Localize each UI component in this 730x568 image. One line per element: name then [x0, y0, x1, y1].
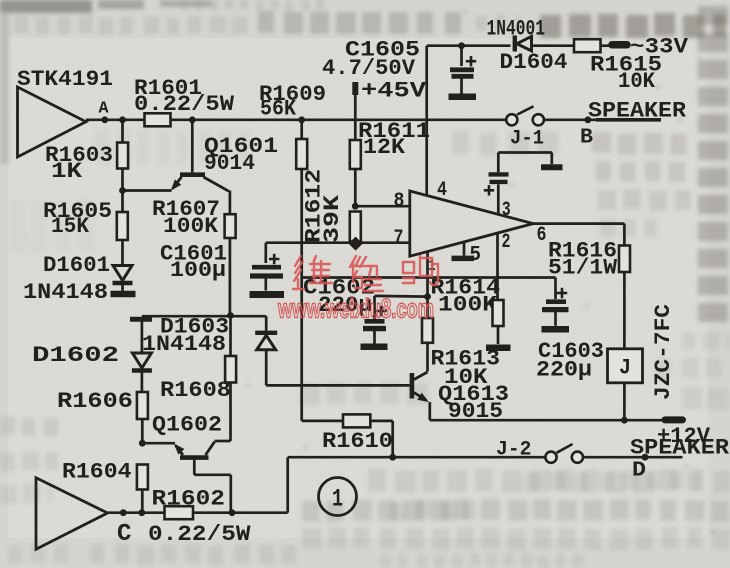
ground pin3 net — [541, 164, 563, 170]
plus sign C1605 — [466, 56, 476, 66]
wire op-amp output pin 6 — [533, 222, 624, 225]
wire junction down to R1608 — [229, 316, 232, 357]
junction pin8 node — [352, 203, 359, 210]
wire STK output to node A — [86, 118, 105, 121]
wire pin 8 — [355, 205, 410, 208]
wire Q1613 emitter down — [428, 402, 431, 420]
plus sign C1602 — [376, 306, 386, 316]
junction bus / Q1601 — [189, 116, 196, 123]
resistor R1608 — [225, 356, 236, 383]
capacitor C1603 bottom plate — [542, 307, 569, 312]
junction node A / R1603 — [119, 116, 126, 123]
junction R1610 / J-2 bus — [389, 454, 396, 461]
wire R1610 row — [302, 420, 393, 423]
relay J JZC-7FC box — [608, 349, 643, 383]
J-1 lever — [517, 106, 534, 114]
junction R1607/R1608/D1602/D1603 — [227, 312, 234, 319]
wire C1602 to pin1 junction — [375, 295, 428, 298]
wire pin 1 down — [426, 252, 429, 297]
op-amp STK4191 lower section triangle — [36, 478, 108, 549]
wire node A down through R1603 — [121, 120, 124, 191]
resistor R1603 1K — [117, 143, 128, 169]
terminal bar +12V — [665, 416, 683, 423]
switch J-2 — [545, 452, 556, 463]
diode D1604 1N4001 — [513, 36, 517, 52]
terminal bar above D1602 — [130, 317, 152, 322]
wire relay to +12V bus — [623, 383, 626, 420]
wire Q1602 base down to node — [229, 475, 232, 513]
junction R1606/R1604/Q1602 emitter — [139, 440, 146, 447]
wire R1614 to ground — [497, 326, 500, 344]
terminal bar ~33V — [612, 41, 627, 49]
resistor R1611 12K — [350, 140, 361, 169]
wire R1610 corner down — [391, 421, 394, 457]
diode D1601 1N4148 — [113, 266, 132, 281]
Q1613 emitter lead — [414, 393, 427, 401]
node C — [120, 509, 127, 516]
resistor R1607 100K — [225, 214, 236, 238]
svg-text:www.weixiu8.com: www.weixiu8.com — [277, 294, 434, 324]
capacitor C1603 top plate — [546, 299, 566, 304]
capacitor C1601 bottom plate — [250, 273, 283, 278]
ground below D1601 — [111, 291, 136, 298]
wire bus underline below SPEAKER — [596, 118, 661, 122]
junction pin1/C1602/R1613 — [424, 293, 431, 300]
wire Q1602 emitter to junction — [142, 442, 175, 445]
wire C1601 to ground — [264, 279, 267, 291]
resistor R1606 — [137, 392, 148, 419]
wire Q1602 base right — [194, 473, 231, 476]
junction R1603/R1605/Q1601 emitter — [119, 187, 126, 194]
junction bus / R1609 — [298, 116, 305, 123]
wire pin3 top right — [498, 151, 552, 154]
resistor R1602 0.22/5W — [165, 506, 194, 519]
wire Q1601 collector down to R1607 — [229, 191, 232, 215]
node D dot — [642, 454, 649, 461]
wire junction down through R1605 — [121, 191, 124, 266]
wire junction to R1613 — [426, 297, 429, 318]
resistor R1609 56K — [296, 139, 307, 169]
wire C1605 lead — [460, 46, 463, 66]
capacitor on pin 3 — [490, 180, 508, 184]
wire bus after J-1 to SPEAKER B — [544, 118, 598, 121]
wire C1601 top lead — [264, 243, 267, 263]
resistor R1615 10K — [574, 39, 601, 52]
Q1601 emitter lead — [173, 177, 182, 189]
wire C1605 to ground — [460, 79, 463, 94]
resistor R1612 39K — [350, 212, 361, 242]
diode D1603 1N4148 — [255, 331, 277, 335]
wire Q1601 emitter to junction — [123, 189, 172, 192]
wire R1606 to junction — [141, 419, 144, 443]
op-amp STK4191 upper section triangle — [18, 87, 87, 157]
ground below C1602 — [361, 344, 388, 351]
ground below C1603 — [542, 326, 570, 333]
wire C1603 to ground — [554, 312, 557, 326]
Q1613 collector lead — [414, 372, 428, 380]
wire R1613 to Q1613 collector — [426, 343, 429, 372]
wire R1609 column down to R1610 — [300, 120, 303, 421]
wire R1615 to terminal — [601, 44, 613, 47]
wire R1607 down to junction — [229, 238, 232, 316]
wire corner down to D1603 — [265, 316, 268, 331]
wire pin 4 up to top rail — [425, 46, 428, 196]
wire pin 7 from C1601 to op-amp — [266, 241, 410, 244]
Q1601 collector lead — [204, 177, 229, 191]
wire D1602 to R1606 — [141, 373, 144, 393]
wire pin 2 down — [496, 233, 499, 300]
wire C1602 lead down — [373, 296, 376, 319]
wire C1602 to ground — [373, 331, 376, 344]
junction diamond pin7 node — [349, 237, 363, 251]
wire R1604 to bottom bus — [141, 490, 144, 513]
wire corner down to R1616 — [623, 224, 626, 246]
Q1613 emitter arrow — [417, 393, 431, 406]
wire D1601 to ground — [121, 284, 124, 291]
capacitor C1602 top plate — [365, 319, 385, 324]
wire +12V bus — [430, 419, 666, 422]
wire bar to D1602 — [141, 322, 144, 354]
wire junction row y316 — [142, 315, 266, 318]
Q1602 collector lead — [206, 442, 215, 455]
capacitor C1605 bottom plate — [452, 74, 474, 79]
watermark red characters — [293, 256, 438, 291]
wire J-2 bus — [288, 456, 546, 459]
ground below C1601 — [250, 291, 285, 298]
wire top rail left part — [427, 44, 511, 47]
wire +45V down to R1611 — [354, 95, 357, 140]
wire R1616 down to relay — [623, 272, 626, 349]
ground below C1605 — [449, 94, 477, 101]
Q1601 emitter arrow — [168, 179, 182, 193]
wire Q1602 collector — [215, 440, 231, 443]
transistor Q1601 base bar — [180, 172, 205, 177]
resistor R1614 100K — [493, 300, 504, 326]
plus sign C1601 — [269, 254, 279, 264]
wire Q1613 base — [266, 384, 410, 387]
terminal +45V bar — [352, 82, 358, 95]
junction R1604 bottom — [138, 509, 145, 516]
J-2 lever — [557, 444, 573, 453]
resistor R1605 15K — [117, 212, 128, 240]
wire R1611 to pin8 node — [354, 169, 357, 206]
junction C1605 — [458, 42, 465, 49]
node B — [585, 116, 592, 123]
wire D1603 down to Q1613 base wire — [265, 350, 268, 385]
transistor Q1602 base bar — [180, 455, 209, 460]
ground pin 5 — [452, 256, 475, 262]
capacitor C1605 top plate — [450, 67, 474, 72]
capacitor C1601 top plate — [252, 265, 281, 270]
transistor Q1613 base bar — [410, 373, 415, 399]
Q1602 base stub down — [193, 460, 196, 475]
Q1602 emitter lead — [176, 446, 184, 456]
resistor R1610 — [343, 414, 370, 427]
wire pin 5 stub — [463, 242, 466, 255]
wire down to ground — [550, 153, 553, 165]
wire pin 3 up — [497, 184, 500, 215]
switch J-1 — [506, 114, 517, 125]
plus sign pin3 cap — [484, 185, 494, 195]
wire pin3 cap up — [497, 153, 500, 173]
wire pin2 row to C1603 — [302, 276, 556, 279]
Q1602 emitter arrow — [171, 441, 185, 455]
wire D1604 to R1615 — [532, 44, 575, 47]
diode D1602 — [132, 353, 151, 368]
capacitor C1602 bottom plate — [363, 326, 386, 331]
ground below R1614 — [486, 344, 511, 351]
resistor R1616 51/1W — [619, 246, 630, 273]
wire C1603 lead — [554, 278, 557, 300]
wire main top bus — [105, 118, 506, 121]
resistor R1601 0.22/5W — [145, 113, 171, 126]
node A — [101, 116, 108, 123]
wire bottom bus node C — [108, 511, 288, 514]
junction relay / +12V bus — [621, 417, 628, 424]
op-amp comparator U1 triangle — [410, 191, 533, 256]
wire corner up to J-2 bus — [286, 457, 289, 513]
resistor R1613 10K — [422, 318, 433, 343]
circled figure marker 1 — [319, 478, 357, 516]
wire R1608 to Q1602 collector — [229, 383, 232, 442]
resistor R1604 — [137, 465, 148, 490]
plus sign C1603 — [557, 288, 567, 298]
junction R1602 right — [229, 509, 236, 516]
wire bus down to Q1601 base — [191, 120, 194, 173]
wire J-2 to speaker D — [583, 456, 682, 459]
